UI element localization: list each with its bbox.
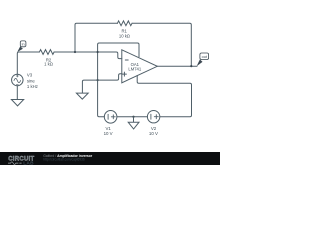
V3 sine wave symbol: [14, 78, 21, 82]
V1 plus symbol: [111, 115, 115, 119]
resistor R1: [117, 21, 132, 26]
op-amp minus input symbol: [125, 59, 128, 61]
junction dot rail and input wire: [97, 51, 99, 53]
footer banner: [0, 152, 220, 165]
wire non-inverting input dogleg to ground branch: [82, 74, 121, 93]
node in label flag: [17, 46, 23, 52]
resistor R2: [39, 50, 54, 55]
voltage source V2: [147, 111, 159, 123]
wire R2 to inverting input dogleg: [54, 52, 122, 59]
svg-text:10 V: 10 V: [149, 131, 158, 136]
V2 plus symbol: [154, 115, 158, 119]
svg-text:V3: V3: [27, 73, 33, 78]
svg-text:sine: sine: [27, 78, 35, 83]
ground between V1 and V2: [128, 122, 139, 129]
wire R1 to output vertical: [132, 23, 191, 66]
svg-text:1 kHz: 1 kHz: [27, 84, 38, 89]
voltage source V1: [104, 111, 117, 124]
voltage source V3 sine: [12, 74, 24, 86]
svg-text:1 kΩ: 1 kΩ: [44, 62, 53, 67]
junction dot at inverting input node: [74, 51, 76, 53]
ground under V3: [11, 100, 23, 106]
wire feedback vertical up from input node: [75, 23, 117, 52]
wire middle node to ground: [133, 117, 135, 122]
svg-text:http://circuitlab.com/capt6936: http://circuitlab.com/capt6936: [43, 157, 85, 161]
svg-text:out: out: [202, 55, 208, 59]
CircuitLab logo sine squiggle: [8, 162, 22, 165]
wire input corner to R2 (node in): [17, 52, 39, 74]
junction dot rail and non-inverting branch: [97, 79, 99, 81]
svg-text:10 kΩ: 10 kΩ: [119, 34, 130, 39]
op-amp plus input symbol: [122, 72, 126, 76]
junction dot output feedback: [190, 65, 192, 67]
wire between V1 and V2: [117, 116, 147, 118]
V3 plus symbol: [16, 75, 18, 77]
junction dot middle supply node: [132, 116, 134, 118]
op-amp OA1 triangle: [122, 50, 158, 83]
V2 minus bar symbol: [150, 114, 152, 119]
wire V3 to ground: [16, 86, 18, 100]
svg-text:10 V: 10 V: [104, 131, 113, 136]
svg-text:in: in: [22, 42, 25, 46]
wire op-amp bottom supply pin to V2 positive rail: [137, 76, 191, 117]
svg-text:LM741: LM741: [128, 67, 141, 72]
V3 minus symbol: [16, 83, 18, 85]
V1 minus bar symbol: [107, 114, 109, 119]
node out label flag: [197, 59, 203, 66]
ground at non-inverting input: [76, 93, 88, 99]
node out label box: [200, 53, 209, 60]
node in label box: [20, 41, 26, 47]
wire negative rail V1 to op-amp top supply pin: [98, 43, 139, 117]
wire output from op-amp: [157, 65, 197, 67]
svg-text:LAB: LAB: [23, 161, 34, 165]
